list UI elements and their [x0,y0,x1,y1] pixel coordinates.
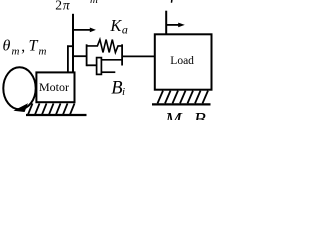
output wire to load [122,55,155,57]
label theta_m , T_m [3,37,47,57]
shaft bar (vertical) [72,14,74,73]
svg-text:m: m [12,46,20,58]
svg-text:T: T [29,37,39,54]
label Bt [111,78,125,98]
right bracket [121,44,123,65]
damper rod [87,64,97,66]
label fragment above load marker [171,0,173,3]
motor ground hatching [28,103,75,114]
rotation arrow ellipse [3,67,35,109]
damper cylinder bottom line [101,71,115,73]
svg-text:m: m [39,46,47,58]
svg-text:,: , [21,38,25,55]
crossbar from bar to bracket [74,55,88,57]
svg-text:2π: 2π [55,0,71,12]
svg-text:Motor: Motor [39,80,69,94]
rotation arrowhead [13,103,28,112]
svg-text:a: a [122,22,128,36]
load box [155,34,212,89]
svg-text:i: i [122,86,125,98]
svg-text:B: B [194,109,206,120]
load ground hatching [158,91,209,104]
svg-text:θ: θ [3,37,11,54]
damper cylinder top line [101,59,121,61]
motor ground baseline [26,114,87,116]
svg-text:K: K [109,16,122,35]
left bracket [86,44,88,66]
displacement marker on load [166,11,185,35]
motor box [36,72,74,102]
spring Ka [87,40,121,53]
svg-text:Load: Load [170,55,194,67]
bar flag left wall [67,45,69,72]
bar flag top edge [67,45,74,47]
label Ka [109,16,128,36]
damper piston plate [97,58,102,75]
svg-text:M: M [164,109,183,120]
displacement arrow on bar [74,28,96,33]
load ground baseline [152,103,211,105]
svg-text:B: B [111,78,122,98]
svg-text:m: m [90,0,98,6]
